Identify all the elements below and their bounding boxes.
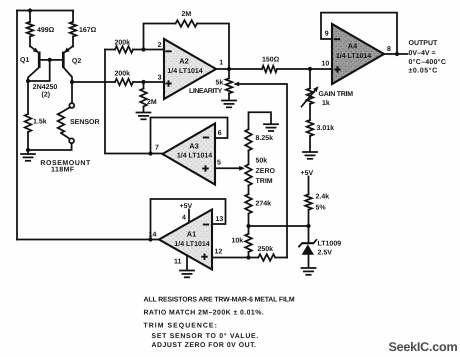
svg-text:+5V: +5V [301, 170, 314, 177]
svg-text:1/4 LT1014: 1/4 LT1014 [167, 67, 202, 75]
resistor 8.25k [245, 129, 273, 164]
svg-text:150Ω: 150Ω [262, 57, 280, 64]
svg-text:2.5V: 2.5V [318, 250, 333, 257]
svg-text:7: 7 [155, 145, 159, 152]
node A3 output junction [148, 151, 152, 155]
wire A1 pin 11 to ground [186, 255, 188, 270]
node pin 3 junction [141, 80, 145, 84]
svg-text:1.5k: 1.5k [33, 118, 47, 126]
svg-text:5k: 5k [216, 79, 224, 87]
wire top rail [17, 10, 73, 12]
ground below LT1009 [302, 268, 316, 275]
svg-text:ZERO: ZERO [256, 168, 276, 175]
transistor Q1 2N4250 [20, 46, 39, 81]
op-amp A3 1/4 LT1014 [155, 124, 222, 185]
svg-text:9: 9 [325, 31, 329, 38]
svg-text:GAIN TRIM: GAIN TRIM [319, 91, 354, 98]
node Q2 collector [70, 80, 74, 84]
wire A1 pin 12 to 10k node [212, 257, 249, 259]
svg-text:0°C–400°C: 0°C–400°C [409, 59, 447, 66]
ground below 5k pot [222, 101, 236, 108]
svg-text:6: 6 [218, 130, 222, 137]
svg-text:+5V: +5V [180, 203, 193, 210]
svg-text:50k: 50k [256, 156, 268, 164]
ground below 3.01k [303, 152, 317, 159]
svg-text:3: 3 [158, 75, 162, 82]
node A1 output junction [148, 237, 152, 241]
wire Q2 collector to 200k [72, 81, 115, 83]
watermark SeekIC.com [389, 340, 458, 354]
wire left supply rail from A1 output to current-source top rail [16, 11, 18, 240]
resistor 2M feedback around A2 [144, 11, 230, 69]
wire A1 feedback pin 14 to pin 13 [151, 199, 226, 240]
resistor 10k [232, 226, 252, 258]
resistor 200k (input to pin 2) [105, 39, 164, 53]
svg-text:TRIM SEQUENCE:: TRIM SEQUENCE: [144, 323, 218, 330]
svg-text:RATIO MATCH 2M–200K ± 0.01%.: RATIO MATCH 2M–200K ± 0.01%. [144, 310, 265, 317]
svg-text:8.25k: 8.25k [256, 134, 274, 142]
svg-text:Q1: Q1 [20, 57, 29, 64]
node pin 10 junction [308, 67, 312, 71]
zener LT1009 2.5V [299, 226, 341, 268]
label +5V at A1 pin 4 [180, 203, 193, 210]
svg-text:13: 13 [216, 216, 224, 223]
svg-text:118MF: 118MF [51, 167, 75, 174]
svg-text:1/4 LT1014: 1/4 LT1014 [177, 151, 212, 159]
svg-text:LT1009: LT1009 [318, 241, 342, 248]
wire Q1-Q2 base tie [39, 59, 63, 61]
svg-text:2: 2 [158, 42, 162, 49]
svg-text:11: 11 [174, 259, 182, 266]
node A4 output junction [395, 52, 399, 56]
node 2.4k LT1009 junction [306, 224, 310, 228]
wire A2 output [216, 68, 262, 70]
svg-text:499Ω: 499Ω [37, 27, 55, 34]
transistor Q2 2N4250 [63, 46, 81, 82]
ground at A1 pin 11 [180, 271, 194, 278]
note set sensor [152, 333, 260, 340]
svg-text:1/4 LT1014: 1/4 LT1014 [174, 240, 209, 248]
svg-text:2N4250: 2N4250 [33, 84, 58, 91]
svg-text:167Ω: 167Ω [79, 27, 97, 34]
svg-text:3.01k: 3.01k [317, 124, 335, 132]
node base junction [48, 58, 52, 62]
wire A1 output to left rail [17, 239, 159, 241]
note all resistors [144, 297, 295, 304]
sensor ROSEMOUNT 118MF [28, 82, 100, 150]
ground below 1.5k and sensor [21, 150, 35, 161]
label ROSEMOUNT 118MF [40, 160, 91, 174]
svg-text:ALL RESISTORS ARE TRW-MAR-6 ME: ALL RESISTORS ARE TRW-MAR-6 METAL FILM [144, 297, 295, 304]
resistor 274k [245, 194, 271, 226]
label 2N4250 (2) [33, 84, 58, 99]
svg-text:4: 4 [182, 215, 186, 222]
wire A4 output [384, 53, 408, 55]
node 274k junction [246, 224, 250, 228]
svg-text:2M: 2M [182, 11, 192, 18]
ground below 2M [137, 113, 151, 120]
svg-text:2.4k: 2.4k [316, 193, 330, 201]
resistor 2.4k 5% [305, 177, 329, 227]
svg-text:8: 8 [387, 46, 391, 53]
resistor 167Ω [70, 11, 97, 47]
resistor 150Ω [262, 57, 332, 73]
svg-text:SeekIC.com: SeekIC.com [389, 340, 458, 354]
note ratio match [144, 310, 265, 317]
svg-text:200k: 200k [115, 39, 131, 47]
resistor 200k (input to pin 3) [115, 70, 165, 86]
svg-text:A4: A4 [348, 42, 358, 51]
wire 5k wiper to 250k [234, 82, 287, 258]
svg-text:5: 5 [217, 160, 221, 167]
label OUTPUT 0V-4V [409, 40, 447, 75]
svg-text:TRIM: TRIM [256, 178, 273, 185]
svg-text:A2: A2 [179, 57, 188, 66]
wire node row 274k to LT1009 [249, 225, 309, 227]
wire 200k tap down to A3 output [105, 50, 163, 154]
node Q1 collector [26, 79, 30, 83]
ground above 8.25k [249, 112, 279, 131]
svg-text:10: 10 [322, 61, 330, 68]
wire +5V to A1 pin 4 [188, 210, 190, 223]
note adjust zero [152, 342, 257, 349]
svg-text:10k: 10k [232, 237, 244, 245]
svg-text:274k: 274k [256, 200, 272, 208]
svg-text:A3: A3 [189, 142, 198, 151]
svg-text:(2): (2) [42, 91, 51, 99]
svg-text:250k: 250k [258, 245, 274, 253]
svg-text:2M: 2M [147, 99, 157, 106]
potentiometer GAIN TRIM 1k [302, 69, 354, 107]
node sensor/1.5k ground junction [26, 148, 30, 152]
op-amp A2 1/4 LT1014 [158, 39, 224, 99]
node A2 output junction [227, 67, 231, 71]
svg-text:A1: A1 [187, 230, 196, 239]
label +5V supply [301, 170, 314, 177]
potentiometer 5k LINEARITY [189, 69, 232, 100]
svg-text:ADJUST ZERO FOR 0V OUT.: ADJUST ZERO FOR 0V OUT. [152, 342, 257, 349]
node 10k/250k junction [246, 255, 250, 259]
svg-text:1/4 LT1014: 1/4 LT1014 [336, 52, 371, 60]
note trim sequence [144, 323, 218, 330]
wire base to Q1 collector [28, 60, 50, 81]
wire A4 feedback loop pin 8 to pin 9 [321, 13, 397, 54]
svg-text:1: 1 [219, 60, 223, 67]
op-amp A4 1/4 LT1014 [322, 24, 392, 84]
resistor 499Ω [27, 11, 55, 47]
svg-text:LINEARITY: LINEARITY [189, 88, 223, 95]
resistor 2M to ground [140, 82, 157, 112]
svg-text:±0.05°C: ±0.05°C [409, 68, 438, 75]
wire A3 feedback pin 7 to pin 6 [151, 118, 228, 154]
wire A3 pin 5 to zero trim wiper [215, 166, 245, 171]
svg-text:0V–4V =: 0V–4V = [409, 50, 436, 57]
svg-text:1k: 1k [322, 99, 330, 107]
resistor 3.01k [307, 104, 334, 152]
svg-text:Q2: Q2 [72, 58, 81, 65]
svg-text:SENSOR: SENSOR [70, 119, 100, 126]
node pin 2 junction [141, 47, 145, 51]
resistor 1.5k [25, 81, 47, 150]
potentiometer 50k ZERO TRIM [245, 156, 275, 194]
node top rail junction [28, 8, 32, 12]
svg-text:12: 12 [215, 249, 223, 256]
op-amp A1 1/4 LT1014 [149, 210, 224, 270]
svg-text:SET SENSOR TO 0° VALUE.: SET SENSOR TO 0° VALUE. [152, 333, 260, 340]
svg-text:OUTPUT: OUTPUT [409, 40, 439, 47]
svg-text:5%: 5% [316, 205, 327, 212]
svg-text:200k: 200k [115, 70, 131, 78]
resistor 250k [249, 245, 288, 261]
